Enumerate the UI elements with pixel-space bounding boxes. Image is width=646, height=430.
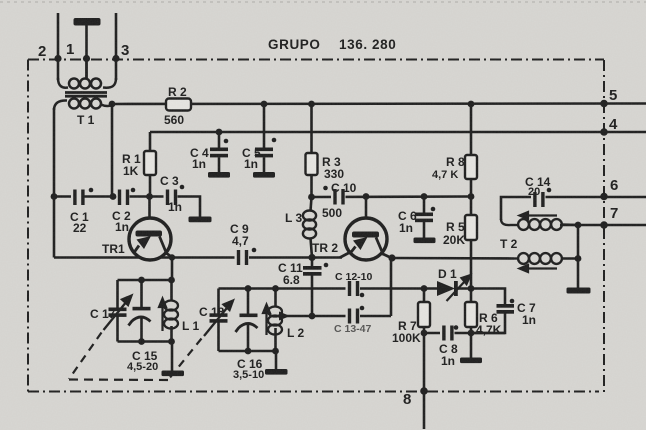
wire TR2 base lead — [365, 197, 368, 233]
wire T2 right common drop — [577, 225, 580, 288]
antenna plate terminal 1 — [74, 18, 101, 26]
node R3 C10 L3 — [308, 194, 315, 201]
node tank1 C15 top — [138, 277, 145, 284]
wire AFC line tank2 to D1 — [219, 287, 438, 290]
wire tank2 ground stem — [275, 351, 278, 370]
ground for C3 — [189, 217, 212, 223]
node TR2 collector — [388, 254, 395, 261]
gang dashed link C18 — [168, 339, 202, 381]
wire C18 leads — [217, 289, 220, 315]
ground T2 — [567, 288, 591, 294]
capacitor C8 — [440, 326, 455, 342]
node tank2 C16 top — [245, 285, 252, 292]
wire R6 bottom lead — [470, 327, 473, 333]
node tank2 ground — [272, 348, 279, 355]
node D1 cathode R6 — [468, 285, 475, 292]
polarity dot C2 — [131, 188, 136, 193]
inductor L1 — [164, 301, 178, 329]
trimmer C16 — [240, 314, 258, 318]
capacitor C9 — [235, 250, 250, 266]
variable capacitor C18 — [210, 313, 228, 322]
wire supply bus node 5 — [112, 102, 646, 105]
wire tank1 bottom rail — [118, 340, 173, 343]
ground for C6 — [414, 238, 436, 244]
wire C17 leads — [116, 280, 119, 308]
inductor L3 — [303, 197, 316, 258]
top edge scan artifact — [0, 1, 646, 3]
capacitor C10 — [331, 189, 346, 205]
wire L1 leads — [170, 280, 173, 301]
resistor R3 — [306, 153, 318, 175]
resistor R7 — [418, 302, 430, 327]
transformer T2 upper winding — [501, 219, 578, 230]
polarity dot C8 — [454, 325, 459, 330]
polarity dot C13 — [360, 306, 365, 311]
node TR2 base — [363, 193, 370, 200]
node C4 on line 4 — [216, 129, 223, 136]
capacitor C6 — [415, 213, 433, 217]
wire terminal 2 lead — [57, 13, 60, 80]
transistor TR2 — [345, 218, 387, 260]
wire C13 line — [283, 315, 391, 318]
polarity dot C11 — [324, 263, 329, 268]
polarity dot C12 — [360, 293, 365, 298]
capacitor C14 — [531, 192, 546, 208]
node R3 on bus — [308, 101, 315, 108]
node R8 R5 — [468, 193, 475, 200]
wire terminal 3 lead — [115, 13, 118, 80]
resistor R1 — [144, 151, 156, 175]
transformer T1 — [54, 58, 116, 110]
L1 tuning arrow — [159, 299, 166, 332]
wire tank2 bottom rail — [219, 350, 277, 353]
ground tank1 — [162, 371, 185, 377]
node terminal 5 — [600, 100, 608, 108]
node tank1 L1 top — [168, 277, 175, 284]
polarity dot C1 — [89, 188, 94, 193]
node emitter feedback left — [51, 193, 58, 200]
wire emitter line TR1 to TR2 — [54, 256, 342, 259]
module boundary dash-dot top — [28, 59, 604, 61]
T2 upper tuning arrow — [520, 212, 558, 219]
node terminal 7 — [600, 221, 608, 229]
ground for C5 — [253, 172, 275, 178]
variable capacitor C17 — [109, 308, 127, 317]
wire R5 bottom through to D1 cathode — [470, 240, 473, 289]
wire R3 bottom lead — [310, 175, 313, 197]
node TR1 collector — [169, 254, 175, 260]
wire R6 top lead — [470, 289, 473, 303]
node terminal 1 — [83, 55, 90, 62]
polarity dot C14 — [547, 188, 552, 193]
capacitor C13 — [346, 309, 361, 325]
wire C4 lead — [218, 132, 221, 148]
node terminal 8 — [420, 387, 428, 395]
resistor R5 — [465, 215, 477, 240]
capacitor C5 — [255, 148, 273, 152]
inductor L2 — [268, 307, 282, 335]
wire C6 top lead — [423, 197, 426, 215]
wire terminal 1 antenna stem — [85, 25, 88, 78]
wire tank1 ground stem — [171, 342, 174, 372]
wire C14 node 6 line — [501, 197, 646, 220]
transformer T2 lower winding — [514, 253, 578, 264]
wire L2 leads — [274, 289, 277, 308]
module boundary dash-dot bottom — [28, 391, 599, 393]
wire D1 cathode to C7 — [458, 289, 506, 305]
node R6 C8 C7 — [468, 330, 475, 337]
wire R7 top lead — [423, 289, 426, 303]
ground for R6 C8 C7 — [460, 358, 482, 364]
polarity dot C6 — [431, 207, 436, 212]
wire tank1 top rail — [118, 279, 173, 282]
capacitor C3 — [164, 189, 178, 205]
gang dashed link horizontal — [69, 378, 168, 381]
wire R1 bottom lead — [149, 175, 152, 197]
trimmer C15 — [133, 307, 151, 311]
wire R8 top lead — [470, 104, 473, 155]
capacitor C7 — [497, 304, 515, 308]
polarity dot C7 — [510, 299, 515, 304]
ground for C4 — [208, 172, 230, 178]
node L3 TR2 emitter C11 — [308, 254, 315, 261]
transistor TR1 — [129, 218, 171, 260]
node terminal 6 — [600, 193, 608, 201]
node R7 C8 — [421, 330, 428, 337]
wire T2 upper right to node7 — [560, 224, 646, 227]
wire C11 bottom stem — [311, 275, 314, 316]
node tank1 ground — [168, 338, 175, 345]
wire C6 ground stem — [423, 222, 426, 239]
wire R6 ground stem — [470, 333, 473, 358]
node terminal 4 — [600, 128, 608, 136]
polarity dot C10 — [323, 186, 328, 191]
node T2 upper right — [575, 222, 582, 229]
node C11 C13 — [309, 313, 316, 320]
wire C5 lead — [263, 104, 266, 148]
polarity dot C3 — [180, 185, 185, 190]
gang dashed link C17 — [69, 333, 102, 380]
wire TR1 collector drop — [171, 258, 174, 281]
resistor R2 — [166, 99, 191, 111]
wire R1 top lead — [149, 132, 152, 151]
wire node 4 bus — [150, 131, 646, 134]
ground tank2 — [265, 369, 288, 375]
L2 tap wedge — [279, 312, 290, 321]
capacitor C2 — [116, 189, 130, 205]
wire TR1 base lead — [148, 197, 151, 233]
polarity dot C5 — [272, 138, 277, 143]
wire T1 secondary left drop — [53, 108, 56, 258]
wire TR2 collector drop to C13 — [390, 258, 393, 316]
node D1 anode R7 — [421, 285, 428, 292]
node C6 — [421, 193, 428, 200]
wire C7 bottom lead — [471, 313, 505, 333]
diode D1 — [437, 281, 455, 296]
wire C15 leads — [140, 280, 143, 307]
wire AGC line C8 — [424, 332, 505, 335]
wire node 8 drop — [423, 333, 426, 429]
polarity dot C9 — [252, 248, 257, 253]
wire C16 leads — [247, 289, 250, 315]
node C5 on bus — [261, 101, 268, 108]
node R8 on bus — [468, 101, 475, 108]
wire T1 secondary right drop — [111, 104, 114, 197]
resistor R8 — [465, 155, 477, 179]
wire base line TR1 — [54, 197, 200, 217]
node T1 drop on base line — [110, 193, 117, 200]
capacitor C11 — [303, 266, 322, 270]
wire oscillator base line TR2 — [312, 195, 472, 198]
node T2 lower right — [575, 255, 582, 262]
node tank2 C16 bottom — [245, 348, 252, 355]
resistor R6 — [465, 302, 477, 327]
wire R7 bottom lead — [423, 327, 426, 333]
node T1 secondary to bus — [109, 101, 116, 108]
D1 tuning arrow — [447, 275, 471, 301]
module boundary dash-dot right — [599, 60, 604, 391]
wire TR2 collector line to T2 — [392, 257, 514, 260]
L2 tuning arrow — [263, 305, 270, 336]
node TR1 base R1 — [146, 193, 153, 200]
capacitor C1 — [71, 189, 85, 205]
node terminal 3 — [112, 55, 119, 62]
polarity dot C4 — [224, 139, 229, 144]
capacitor C12 — [346, 281, 361, 297]
T2 lower tuning arrow — [520, 265, 558, 272]
module boundary dash-dot left — [27, 60, 29, 392]
wire R3 top lead — [310, 104, 313, 153]
capacitor C4 — [210, 148, 228, 152]
wire R8 R5 junction lead — [470, 179, 473, 215]
node tank2 L2 top — [272, 285, 279, 292]
wire C11 top stem — [311, 258, 314, 267]
node terminal 2 — [54, 55, 61, 62]
node tank1 C15 bottom — [138, 338, 145, 345]
